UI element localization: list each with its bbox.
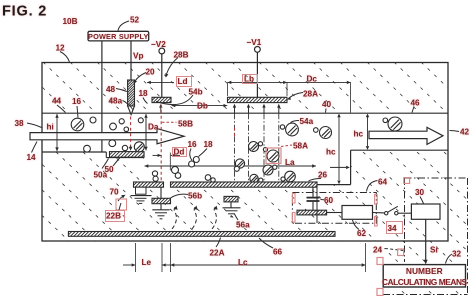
channel bottom wall left bbox=[42, 151, 106, 153]
svg-text:POWER SUPPLY: POWER SUPPLY bbox=[88, 32, 149, 41]
leader 50a bbox=[102, 159, 109, 169]
dimension Db bbox=[172, 105, 228, 107]
collecting electrode bar right segment 22A top bbox=[171, 182, 318, 187]
wire power supply right to discharge electrode 48 bbox=[130, 41, 132, 81]
dimension Ld bbox=[147, 81, 174, 83]
svg-text:−V1: −V1 bbox=[247, 38, 262, 47]
dimension Dc bbox=[287, 81, 351, 83]
svg-text:20: 20 bbox=[146, 68, 156, 77]
svg-text:40: 40 bbox=[322, 100, 332, 109]
red corner near 24 bbox=[398, 249, 404, 256]
leader 12 bbox=[60, 52, 70, 63]
leader 18 top bbox=[143, 98, 148, 104]
ion flow arrows 66 bbox=[172, 207, 176, 230]
svg-text:18: 18 bbox=[139, 89, 149, 98]
dimension Le bbox=[134, 243, 136, 272]
leader 22A bbox=[216, 238, 221, 248]
svg-text:44: 44 bbox=[52, 97, 62, 106]
svg-text:42: 42 bbox=[460, 128, 470, 137]
svg-text:FIG. 2: FIG. 2 bbox=[2, 4, 47, 20]
dimension Dd bbox=[153, 154, 162, 156]
leader 16 top bbox=[77, 106, 78, 118]
recess electrode 50 bbox=[110, 152, 145, 158]
chamber right wall 26 step bbox=[350, 150, 352, 184]
svg-text:28A: 28A bbox=[303, 90, 318, 99]
leader 62 bbox=[353, 220, 360, 230]
svg-text:Si: Si bbox=[430, 246, 438, 255]
dimension Lc bbox=[170, 243, 172, 272]
svg-text:14: 14 bbox=[27, 153, 37, 162]
dash-dot box 24 bbox=[404, 178, 406, 262]
chamber lower wall piece bbox=[316, 187, 318, 223]
signal wire Si bbox=[425, 219, 427, 260]
leader 32 bbox=[446, 254, 453, 264]
outlet channel interior bbox=[351, 114, 447, 150]
leader 58B red dash bbox=[162, 121, 177, 123]
red corner squares NCM box bbox=[377, 258, 383, 265]
svg-text:58A: 58A bbox=[293, 142, 308, 151]
leader 40 bbox=[325, 109, 328, 113]
wire switch to box 30 bbox=[398, 212, 411, 214]
apparatus outer wall 12 bbox=[42, 63, 448, 242]
arrow under electrode 54b bbox=[160, 106, 162, 113]
svg-text:NUMBER: NUMBER bbox=[406, 266, 443, 276]
capacitor 60 bbox=[307, 197, 320, 199]
leader 48 bbox=[116, 89, 127, 92]
dimension La bbox=[145, 165, 317, 167]
leader 64 bbox=[367, 181, 378, 192]
leader 22B bbox=[119, 203, 121, 210]
leader 46 bbox=[412, 107, 414, 113]
terminal -V1 bbox=[255, 47, 261, 53]
red axis of electrode 54b bbox=[160, 105, 162, 187]
electrode 28A bbox=[228, 97, 288, 102]
dash-dot box 64 bbox=[292, 193, 376, 224]
dimension Da bbox=[145, 118, 147, 146]
dimension hc outlet bbox=[367, 117, 369, 146]
collecting electrode bar left segment bbox=[134, 182, 164, 187]
particles 16/18 in inlet channel bbox=[71, 118, 84, 131]
svg-text:22A: 22A bbox=[210, 249, 225, 258]
leader 58A red dash bbox=[281, 145, 292, 147]
leader 54b bbox=[156, 95, 193, 105]
svg-text:56b: 56b bbox=[188, 192, 202, 201]
annotation box Lb bbox=[242, 74, 258, 85]
svg-text:16: 16 bbox=[72, 97, 82, 106]
leader 16/18 chamber bbox=[190, 149, 192, 161]
number calculating means box 32 bbox=[383, 265, 465, 287]
wire 62 to switch 34 bbox=[373, 212, 385, 214]
electrode 56a bbox=[224, 196, 238, 202]
annotation box Ld bbox=[176, 76, 192, 87]
leader 50 bbox=[113, 158, 120, 167]
measuring chamber interior bbox=[144, 152, 317, 182]
leader 44 bbox=[57, 105, 66, 113]
leader 52 bbox=[118, 21, 129, 31]
channel top wall 44 bbox=[42, 112, 448, 114]
discharge electrode 48 bbox=[128, 80, 135, 106]
svg-text:hc: hc bbox=[326, 148, 336, 157]
leader 26 bbox=[309, 179, 322, 182]
converter box 30 bbox=[411, 204, 440, 219]
leader 42 bbox=[450, 131, 460, 132]
svg-text:64: 64 bbox=[378, 178, 388, 187]
leader 56a bbox=[235, 214, 239, 220]
svg-text:La: La bbox=[285, 158, 295, 167]
leader 70 arrow bbox=[118, 197, 123, 202]
svg-text:hi: hi bbox=[47, 123, 54, 132]
red corner square box 24 bbox=[404, 178, 410, 184]
electrode 56b bbox=[160, 187, 162, 198]
arrow 26 to wall bbox=[330, 166, 346, 168]
leader 20 bbox=[135, 73, 146, 82]
svg-text:10B: 10B bbox=[63, 17, 78, 26]
bottom plate 22A bbox=[68, 232, 335, 237]
wire power supply left to electrode 50 bbox=[101, 41, 103, 152]
svg-text:26: 26 bbox=[318, 171, 328, 180]
dimension Lb bbox=[228, 81, 288, 83]
leader 28B bbox=[167, 58, 179, 75]
terminal -V2 bbox=[159, 48, 165, 54]
leader 28A bbox=[289, 93, 304, 99]
particles in measuring chamber bbox=[249, 142, 259, 152]
field arrows under electrode 28A bbox=[234, 106, 236, 113]
svg-text:hc: hc bbox=[354, 130, 364, 139]
svg-text:12: 12 bbox=[56, 44, 66, 53]
electrode 54b bbox=[152, 97, 171, 102]
svg-text:60: 60 bbox=[324, 196, 334, 205]
svg-text:16: 16 bbox=[188, 140, 198, 149]
ground under element 70 bbox=[131, 195, 152, 197]
svg-text:50: 50 bbox=[105, 165, 115, 174]
electrode recess 50a bbox=[105, 152, 107, 158]
dimension hc chamber bbox=[338, 117, 340, 180]
svg-text:28B: 28B bbox=[174, 51, 189, 60]
leader 54a bbox=[291, 121, 300, 123]
svg-text:48: 48 bbox=[106, 85, 116, 94]
annotation box 22B bbox=[105, 210, 125, 222]
dimension hi bbox=[56, 118, 58, 147]
leader 14 bbox=[32, 142, 38, 153]
leader 66 bbox=[259, 238, 273, 248]
svg-text:Db: Db bbox=[197, 102, 208, 111]
svg-text:32: 32 bbox=[452, 250, 462, 259]
svg-text:Vp: Vp bbox=[133, 52, 143, 61]
switch 34 bbox=[385, 212, 388, 215]
svg-text:52: 52 bbox=[130, 16, 140, 25]
svg-text:48a: 48a bbox=[109, 97, 123, 106]
annotation box 34 bbox=[386, 221, 403, 234]
wire V2 to electrode 54b bbox=[161, 54, 163, 97]
svg-text:18: 18 bbox=[204, 140, 214, 149]
amplifier box 62 bbox=[342, 206, 373, 220]
wire to amplifier 62 bbox=[327, 212, 342, 214]
svg-text:54b: 54b bbox=[189, 88, 203, 97]
wire V1 to electrode 28A bbox=[256, 52, 258, 97]
svg-text:58B: 58B bbox=[178, 120, 193, 129]
svg-text:−V2: −V2 bbox=[151, 40, 166, 49]
inlet flow arrow 14 bbox=[30, 129, 184, 144]
svg-text:CALCULATING MEANS: CALCULATING MEANS bbox=[382, 277, 468, 287]
svg-text:Da: Da bbox=[148, 123, 159, 132]
annotation box around particle 58A bbox=[266, 148, 281, 164]
svg-text:66: 66 bbox=[273, 248, 283, 257]
red axis mark on field line bbox=[234, 128, 236, 140]
element 70 box bbox=[136, 187, 147, 194]
wire bar to capacitor 60 bbox=[312, 187, 314, 197]
power supply box 52 bbox=[88, 31, 149, 41]
svg-text:62: 62 bbox=[357, 229, 367, 238]
svg-text:Le: Le bbox=[142, 258, 152, 267]
red corner marks of box 64 bbox=[292, 194, 295, 204]
annotation box Dd bbox=[172, 147, 188, 158]
particle in outlet channel bbox=[388, 117, 402, 131]
svg-text:Dc: Dc bbox=[307, 75, 318, 84]
svg-text:70: 70 bbox=[110, 188, 120, 197]
leader 38 bbox=[27, 123, 42, 128]
svg-text:46: 46 bbox=[411, 99, 421, 108]
ground under electrode 56a bbox=[223, 207, 241, 209]
leader 56b bbox=[171, 194, 189, 198]
svg-text:24: 24 bbox=[373, 246, 383, 255]
annotation box near 70 bbox=[116, 199, 127, 210]
red axis of electrode 48 bbox=[130, 117, 132, 146]
sense electrode in box 64 bbox=[297, 210, 327, 215]
svg-text:Lc: Lc bbox=[238, 258, 248, 267]
svg-text:54a: 54a bbox=[300, 117, 314, 126]
channel bottom wall right bbox=[351, 149, 448, 151]
outlet flow arrow 42 bbox=[369, 127, 443, 144]
flow channel interior bbox=[43, 114, 350, 152]
leader 48a bbox=[123, 101, 129, 105]
field lines through chamber bbox=[234, 113, 236, 182]
ground under electrode 56b bbox=[160, 204, 162, 210]
svg-text:30: 30 bbox=[415, 188, 425, 197]
svg-text:56a: 56a bbox=[236, 221, 250, 230]
leader 60 bbox=[321, 199, 325, 201]
svg-text:38: 38 bbox=[15, 119, 25, 128]
leader 24 dash bbox=[385, 249, 404, 251]
leader 30 bbox=[420, 197, 424, 204]
